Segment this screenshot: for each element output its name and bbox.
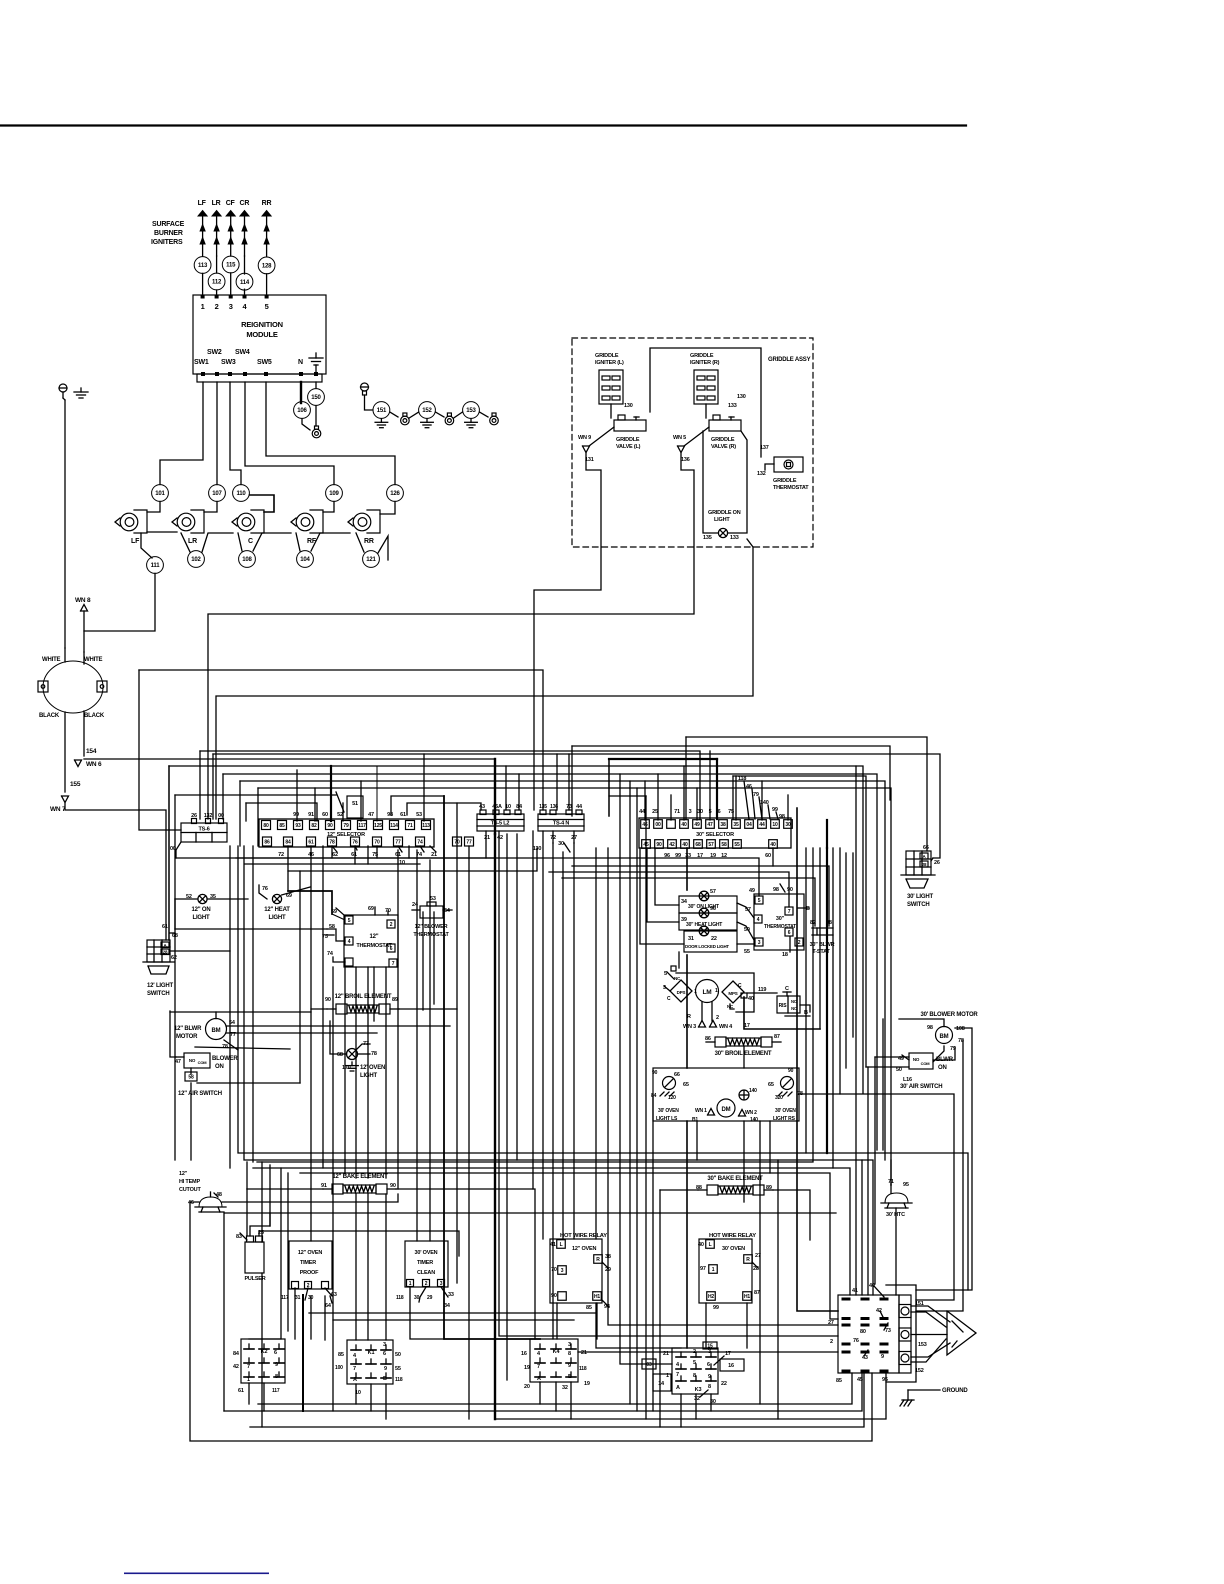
svg-text:78: 78	[371, 1051, 377, 1057]
svg-text:61: 61	[308, 839, 314, 845]
svg-text:BLACK: BLACK	[84, 713, 105, 719]
svg-text:58: 58	[188, 1075, 194, 1081]
svg-text:6: 6	[718, 809, 721, 815]
svg-text:28: 28	[753, 1266, 759, 1272]
wire white to chassis ground	[64, 400, 66, 648]
svg-text:72: 72	[278, 852, 284, 858]
svg-text:WN 4: WN 4	[719, 1024, 733, 1030]
svg-text:42: 42	[233, 1364, 239, 1370]
svg-text:GRIDDLE: GRIDDLE	[711, 437, 735, 443]
circle 111	[141, 533, 152, 558]
svg-text:66: 66	[674, 1072, 680, 1078]
reignition module U1	[193, 295, 326, 374]
svg-text:THERMOSTAT: THERMOSTAT	[773, 485, 809, 491]
svg-text:28: 28	[163, 950, 168, 955]
svg-text:WN 8: WN 8	[75, 597, 91, 604]
wire 110-C	[250, 495, 275, 512]
svg-text:137: 137	[760, 445, 769, 451]
svg-text:24: 24	[412, 902, 419, 908]
svg-text:71: 71	[407, 823, 413, 829]
wire bus h9	[257, 788, 259, 846]
connector WN1	[708, 1109, 715, 1116]
svg-text:HOT WIRE RELAY: HOT WIRE RELAY	[709, 1233, 756, 1239]
svg-text:12" BLWR: 12" BLWR	[174, 1026, 202, 1032]
svg-text:IGNITER (R): IGNITER (R)	[690, 360, 720, 366]
svg-text:41: 41	[852, 1288, 858, 1294]
svg-text:B: B	[383, 1376, 387, 1382]
12 heat light	[272, 894, 281, 903]
svg-text:2: 2	[425, 1281, 428, 1287]
svg-text:79: 79	[343, 823, 349, 829]
circle 150	[315, 382, 317, 388]
svg-text:30: 30	[697, 809, 703, 815]
12 inch light switch	[147, 940, 170, 962]
svg-text:32: 32	[562, 1385, 568, 1391]
wire stubs relay K2	[248, 1383, 250, 1404]
svg-text:19: 19	[524, 1365, 530, 1371]
svg-text:89: 89	[392, 997, 398, 1003]
svg-text:86: 86	[705, 1036, 711, 1042]
pulser	[245, 1242, 264, 1273]
svg-text:CLEAN: CLEAN	[417, 1270, 435, 1276]
main terminal block	[838, 1295, 899, 1373]
svg-text:46: 46	[188, 1200, 194, 1206]
svg-text:64: 64	[325, 1303, 332, 1309]
30 inch light switch	[906, 851, 931, 875]
svg-text:00: 00	[655, 822, 661, 828]
wire bus h7	[222, 774, 224, 819]
svg-text:WN 9: WN 9	[578, 435, 591, 441]
svg-text:153: 153	[466, 408, 476, 414]
svg-text:26: 26	[191, 813, 197, 819]
svg-text:12" OVEN: 12" OVEN	[298, 1250, 322, 1256]
svg-text:5: 5	[265, 302, 269, 311]
svg-text:25: 25	[652, 809, 658, 815]
svg-text:14: 14	[658, 1381, 665, 1387]
left chassis ground	[80, 388, 82, 392]
svg-text:90: 90	[788, 1068, 794, 1074]
svg-text:RR: RR	[262, 200, 272, 207]
svg-text:5: 5	[758, 898, 761, 904]
svg-text:31: 31	[688, 936, 694, 942]
svg-text:46: 46	[642, 822, 648, 828]
svg-text:MOTOR: MOTOR	[176, 1034, 198, 1040]
wire 49 feed	[236, 858, 759, 896]
svg-text:128: 128	[262, 264, 272, 270]
svg-text:5: 5	[709, 809, 712, 815]
connector WN8	[81, 605, 88, 612]
svg-text:CF: CF	[226, 200, 236, 207]
svg-text:62: 62	[171, 955, 177, 961]
svg-text:132: 132	[757, 471, 766, 477]
svg-text:30' OVEN: 30' OVEN	[775, 1108, 796, 1114]
svg-text:78: 78	[329, 839, 335, 845]
svg-text:30" SELECTOR: 30" SELECTOR	[696, 832, 734, 838]
wire 154	[83, 711, 85, 756]
svg-text:1: 1	[409, 1281, 412, 1287]
svg-text:76: 76	[262, 886, 268, 892]
svg-text:9: 9	[568, 1363, 571, 1369]
svg-text:12" BAKE ELEMENT: 12" BAKE ELEMENT	[332, 1174, 388, 1180]
svg-text:WN 6: WN 6	[86, 761, 102, 768]
svg-text:40: 40	[770, 842, 776, 848]
circle 126	[387, 485, 404, 502]
connector WN4	[710, 1021, 717, 1028]
wire valve chain 2	[202, 533, 233, 552]
svg-text:34: 34	[681, 899, 688, 905]
12 inch thermostat	[344, 915, 398, 967]
svg-text:COM: COM	[198, 1060, 208, 1065]
svg-text:7: 7	[537, 1364, 540, 1370]
burner valve C	[232, 518, 237, 526]
wire 119	[747, 992, 777, 994]
svg-text:58: 58	[721, 842, 727, 848]
svg-text:61: 61	[351, 852, 357, 858]
svg-text:GRIDDLE: GRIDDLE	[690, 353, 714, 359]
wire 108	[955, 1028, 972, 1290]
30 broil element	[715, 1037, 726, 1047]
svg-text:140: 140	[749, 1088, 757, 1094]
svg-text:90: 90	[656, 842, 662, 848]
30 oven lights box	[653, 1068, 799, 1121]
svg-text:GRIDDLE: GRIDDLE	[773, 478, 797, 484]
svg-text:121: 121	[366, 557, 376, 563]
wire sub-selector horizontals	[176, 857, 495, 859]
svg-text:6: 6	[788, 930, 791, 936]
30 inch selector switch	[639, 818, 791, 848]
svg-text:60: 60	[765, 853, 771, 859]
svg-text:117: 117	[358, 823, 366, 829]
terminal strip TS-5 L2	[477, 814, 524, 831]
svg-text:H2: H2	[708, 1294, 714, 1300]
svg-text:RR: RR	[364, 538, 374, 545]
svg-text:4: 4	[353, 1353, 357, 1359]
wire griddle light exit	[216, 547, 753, 819]
latch assembly box	[676, 973, 754, 1012]
svg-text:ON: ON	[938, 1065, 947, 1071]
wire LM legs	[701, 1002, 703, 1021]
relay K2	[241, 1339, 285, 1383]
svg-text:NO: NO	[189, 1058, 196, 1063]
svg-text:WN 3: WN 3	[683, 1024, 696, 1030]
svg-text:97: 97	[700, 1266, 706, 1272]
svg-text:140: 140	[750, 1117, 758, 1123]
wire lamp feeds	[655, 848, 679, 905]
svg-text:NO: NO	[913, 1057, 920, 1062]
svg-text:B: B	[568, 1374, 572, 1380]
relay K1	[347, 1340, 393, 1384]
arrow leads	[911, 1306, 950, 1322]
svg-text:WN 5: WN 5	[673, 435, 686, 441]
wire bake right	[396, 1189, 535, 1339]
svg-text:IGNITERS: IGNITERS	[151, 239, 183, 246]
svg-text:42: 42	[669, 842, 675, 848]
svg-text:93: 93	[295, 823, 301, 829]
wire SW5	[266, 382, 395, 485]
wire feeds 30 selector top	[644, 781, 646, 820]
svg-text:112: 112	[212, 280, 222, 286]
griddle igniter R	[694, 370, 718, 404]
wire screw to 151	[365, 395, 373, 410]
svg-text:133: 133	[730, 535, 739, 541]
svg-text:320: 320	[775, 1095, 783, 1101]
30 thermostat	[754, 894, 804, 950]
30 oven timer clean	[405, 1241, 448, 1287]
svg-text:VALVE (R): VALVE (R)	[711, 444, 736, 450]
svg-text:84: 84	[285, 839, 291, 845]
svg-text:12" ON: 12" ON	[192, 907, 211, 913]
svg-text:12" BROIL ELEMENT: 12" BROIL ELEMENT	[335, 994, 392, 1000]
svg-text:00: 00	[170, 846, 176, 852]
igniter wire 128	[258, 257, 275, 274]
page top rule	[0, 124, 966, 126]
svg-text:80: 80	[263, 823, 269, 829]
12 selector callouts	[332, 846, 337, 852]
terminal strip TS-4 N	[538, 814, 584, 831]
svg-text:WHITE: WHITE	[42, 657, 61, 663]
30 oven light RS	[781, 1077, 794, 1090]
svg-text:53: 53	[430, 896, 436, 902]
svg-text:GRIDDLE: GRIDDLE	[595, 353, 619, 359]
wire 30 bake right	[773, 1190, 810, 1240]
svg-text:30' LIGHT: 30' LIGHT	[907, 894, 933, 900]
svg-text:69: 69	[368, 906, 374, 912]
wire bus h8	[239, 781, 241, 846]
svg-text:3: 3	[561, 1268, 564, 1274]
svg-text:LM: LM	[703, 989, 712, 996]
svg-text:19: 19	[584, 1381, 590, 1387]
wire thermostat thick feed	[288, 891, 332, 914]
svg-text:4: 4	[676, 1362, 680, 1368]
svg-text:30": 30"	[776, 916, 785, 922]
wire bus h2	[571, 746, 573, 816]
svg-text:GRIDDLE ON: GRIDDLE ON	[708, 510, 741, 516]
12 oven timer proof	[289, 1241, 332, 1289]
svg-text:65: 65	[768, 1082, 774, 1088]
svg-text:30' BLOWER MOTOR: 30' BLOWER MOTOR	[920, 1012, 978, 1018]
svg-text:SW4: SW4	[235, 349, 250, 356]
svg-text:70: 70	[374, 839, 380, 845]
svg-text:WHITE: WHITE	[84, 657, 103, 663]
svg-text:151: 151	[377, 408, 387, 414]
svg-text:60: 60	[322, 812, 328, 818]
svg-text:62: 62	[332, 852, 338, 858]
svg-text:12' OVEN: 12' OVEN	[360, 1065, 385, 1071]
svg-text:N: N	[298, 359, 303, 366]
svg-text:A: A	[353, 1377, 357, 1383]
wire bus h5	[168, 766, 170, 940]
svg-text:12" AIR SWITCH: 12" AIR SWITCH	[178, 1091, 222, 1097]
30 on light box	[679, 896, 737, 913]
svg-text:1: 1	[715, 988, 718, 994]
svg-text:68: 68	[172, 933, 178, 939]
svg-text:99: 99	[772, 807, 778, 813]
svg-text:C: C	[785, 986, 789, 992]
svg-text:101: 101	[155, 491, 165, 497]
wire oven light feed	[330, 1021, 340, 1054]
wire timer thick drop	[302, 1295, 304, 1411]
svg-text:WN 2: WN 2	[745, 1110, 757, 1116]
svg-text:77: 77	[466, 839, 472, 845]
circle 108	[239, 551, 256, 568]
svg-text:113: 113	[198, 263, 208, 269]
svg-text:DOOR LOCKED LIGHT: DOOR LOCKED LIGHT	[685, 944, 729, 949]
svg-text:40: 40	[681, 822, 687, 828]
svg-text:5: 5	[693, 1360, 696, 1366]
wire timer link h2	[333, 1319, 574, 1321]
circle 104	[297, 551, 314, 568]
svg-text:96: 96	[710, 906, 716, 912]
relay K3	[672, 1348, 718, 1394]
wire feeds 12 selector top	[296, 770, 298, 821]
svg-text:53: 53	[416, 812, 422, 818]
circle 101	[152, 485, 169, 502]
wire TS-4 feeds	[556, 754, 558, 810]
svg-text:17: 17	[744, 1023, 750, 1029]
svg-text:119: 119	[758, 987, 766, 993]
svg-text:1: 1	[247, 1377, 250, 1383]
wire 30 bake left	[660, 1189, 698, 1191]
svg-text:84: 84	[233, 1351, 240, 1357]
svg-text:135: 135	[703, 535, 712, 541]
svg-text:50: 50	[395, 1352, 401, 1358]
wire valve chain 1	[147, 531, 177, 533]
wire 101-LF	[147, 502, 160, 513]
wire hot wire relay stubs	[556, 1303, 558, 1339]
svg-text:132: 132	[204, 813, 213, 819]
latch motor LM	[696, 980, 719, 1003]
svg-text:9: 9	[384, 1366, 387, 1372]
svg-text:47: 47	[368, 812, 374, 818]
svg-text:46: 46	[746, 784, 752, 790]
svg-text:10: 10	[772, 822, 778, 828]
12 on light	[198, 894, 207, 903]
wire timer stubs	[294, 1296, 296, 1339]
wire mesh right verticals	[882, 1019, 884, 1150]
wire TS-5 feeds	[505, 766, 507, 810]
12 blower motor	[206, 1019, 227, 1040]
selector 51 box	[347, 796, 363, 818]
svg-text:7: 7	[392, 961, 395, 967]
svg-text:4: 4	[243, 302, 248, 311]
svg-text:CR: CR	[240, 200, 250, 207]
wire 155	[64, 712, 66, 792]
svg-text:2: 2	[215, 302, 219, 311]
wire 154 bus to TS-5	[84, 758, 495, 760]
bottom section border	[224, 1213, 836, 1411]
burner valve RR	[348, 518, 353, 526]
svg-text:TIMER: TIMER	[417, 1260, 433, 1266]
footer link underline	[124, 1573, 269, 1575]
svg-text:90: 90	[787, 887, 793, 893]
wire 131 exit	[534, 452, 601, 810]
connector WN2	[739, 1110, 746, 1117]
wire 78 blower	[799, 1094, 954, 1300]
circle 153	[463, 402, 480, 419]
svg-text:21: 21	[581, 1350, 587, 1356]
svg-text:PROOF: PROOF	[300, 1270, 319, 1276]
griddle igniter L	[599, 370, 623, 404]
svg-text:7: 7	[788, 909, 791, 915]
svg-text:91: 91	[321, 1183, 327, 1189]
wire 126-RR	[380, 502, 395, 515]
svg-text:6: 6	[274, 1350, 277, 1356]
svg-text:R: R	[746, 1257, 750, 1263]
svg-text:GRIDDLE ASSY: GRIDDLE ASSY	[768, 357, 811, 363]
svg-text:154: 154	[86, 748, 97, 755]
wire 17	[744, 997, 820, 1029]
svg-text:107: 107	[212, 491, 222, 497]
svg-text:30' AIR SWITCH: 30' AIR SWITCH	[900, 1084, 942, 1090]
svg-text:TIMER: TIMER	[300, 1260, 316, 1266]
svg-text:C: C	[248, 538, 253, 545]
12 inch selector switch	[259, 819, 434, 847]
svg-text:95: 95	[903, 1182, 909, 1188]
svg-text:8: 8	[568, 1351, 571, 1357]
svg-text:85: 85	[586, 1305, 592, 1311]
svg-text:21: 21	[431, 852, 437, 858]
connector WN6	[75, 760, 82, 767]
svg-text:125: 125	[374, 823, 382, 829]
svg-text:29: 29	[427, 1295, 433, 1301]
svg-text:SWITCH: SWITCH	[147, 991, 169, 997]
svg-text:71: 71	[888, 1179, 894, 1185]
wire blower loop	[933, 1047, 955, 1060]
svg-text:22: 22	[711, 936, 717, 942]
svg-text:HOT WIRE RELAY: HOT WIRE RELAY	[560, 1233, 607, 1239]
svg-text:SW5: SW5	[257, 359, 272, 366]
burner valve LF	[115, 518, 120, 526]
svg-text:SWITCH: SWITCH	[907, 902, 929, 908]
griddle valve R	[705, 404, 707, 418]
svg-text:30: 30	[785, 822, 791, 828]
svg-text:118: 118	[396, 1295, 404, 1301]
svg-text:40: 40	[698, 1242, 704, 1248]
svg-text:MODULE: MODULE	[246, 330, 277, 339]
svg-text:3: 3	[568, 1342, 571, 1348]
svg-text:12' LIGHT: 12' LIGHT	[147, 983, 173, 989]
svg-text:12" OVEN: 12" OVEN	[572, 1246, 596, 1252]
igniter wire 115	[222, 256, 239, 273]
circle 152	[419, 402, 436, 419]
svg-text:126: 126	[390, 491, 400, 497]
svg-text:70: 70	[551, 1267, 557, 1273]
svg-text:COM: COM	[921, 1061, 931, 1066]
wire bus h3	[212, 754, 214, 819]
svg-text:118: 118	[579, 1366, 587, 1372]
svg-text:86: 86	[264, 839, 270, 845]
svg-text:4: 4	[348, 939, 351, 945]
svg-text:54: 54	[444, 908, 451, 914]
svg-text:130: 130	[737, 394, 746, 400]
svg-text:100: 100	[335, 1365, 343, 1371]
wire SW2	[216, 382, 218, 485]
svg-text:BLACK: BLACK	[39, 713, 60, 719]
svg-text:106: 106	[297, 408, 307, 414]
door motor DM	[717, 1099, 735, 1117]
svg-text:90: 90	[327, 823, 333, 829]
svg-text:LF: LF	[198, 200, 207, 207]
svg-text:A: A	[676, 1385, 680, 1391]
svg-text:55: 55	[734, 842, 740, 848]
svg-text:61: 61	[400, 812, 406, 818]
svg-text:44: 44	[759, 822, 765, 828]
wire valve chain 3	[253, 533, 291, 551]
svg-text:40: 40	[682, 842, 688, 848]
svg-text:38: 38	[720, 822, 726, 828]
svg-text:ON: ON	[215, 1064, 224, 1070]
svg-text:THERMOSTAT: THERMOSTAT	[356, 943, 392, 949]
